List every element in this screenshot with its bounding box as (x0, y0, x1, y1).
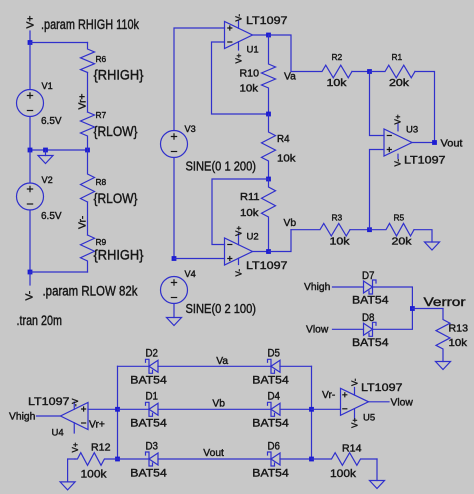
wire Va jog to R2 (269, 35, 292, 72)
U2 top supply label V+ (235, 226, 244, 236)
svg-text:D1: D1 (146, 391, 159, 403)
wire Vhigh to D7 (333, 286, 364, 288)
svg-text:Vr+: Vr+ (78, 94, 89, 110)
flag Va label top (284, 72, 296, 83)
wire U3 plus input riser (370, 150, 385, 230)
junction left column Vout (115, 457, 120, 462)
ground R13 (436, 362, 451, 370)
wire Vr+ net (87, 73, 89, 113)
wire Vb row middle (158, 408, 271, 410)
wire D7 to Verror node (373, 287, 413, 309)
label D8 (362, 312, 375, 324)
wire Va row middle (158, 365, 271, 367)
value D3 BAT54 (130, 467, 167, 479)
label R9 (96, 237, 107, 247)
svg-text:BAT54: BAT54 (252, 418, 288, 430)
svg-text:V+: V+ (26, 16, 37, 29)
label R3 (332, 213, 343, 223)
svg-text:6.5V: 6.5V (41, 116, 62, 127)
value V1 6.5V (41, 116, 62, 127)
wire U1 output (253, 34, 269, 36)
diode D2 (146, 359, 159, 373)
wire V+ rail to R6 (30, 42, 88, 44)
ground midpoint (38, 156, 53, 164)
wire column to U5 minus input (312, 408, 341, 410)
voltage source V1 (17, 90, 44, 117)
U1 bottom supply stub (238, 42, 240, 50)
resistor R6 (81, 43, 95, 73)
value V3 SINE (186, 160, 257, 174)
flag Vr+ label bottom (89, 420, 105, 431)
label V3 (185, 124, 196, 134)
svg-text:SINE(0 1 200): SINE(0 1 200) (186, 160, 257, 174)
diode D8 (364, 322, 377, 336)
flag Vr- label bottom (322, 390, 335, 401)
svg-text:Vr-: Vr- (322, 390, 335, 401)
flag V+ stub (29, 31, 31, 43)
U3 plus input mark (387, 147, 392, 152)
svg-text:10k: 10k (240, 208, 259, 219)
label D4 (268, 391, 281, 403)
U5 bottom supply label V+ (351, 418, 360, 428)
svg-text:100k: 100k (81, 469, 107, 481)
svg-text:.param RLOW 82k: .param RLOW 82k (43, 284, 138, 299)
voltage source V4 (161, 277, 188, 304)
U2 bottom supply stub (238, 258, 240, 264)
svg-text:20k: 20k (389, 78, 410, 89)
junction right column Vout (309, 457, 314, 462)
wire V4 node to U2 plus input (174, 258, 225, 260)
wire right column (311, 366, 313, 459)
svg-text:V4: V4 (185, 269, 196, 279)
U5 plus input mark (342, 392, 347, 397)
svg-text:BAT54: BAT54 (130, 418, 167, 430)
value R14 100k (330, 468, 356, 480)
value D2 BAT54 (130, 375, 167, 387)
svg-text:Vlow: Vlow (391, 398, 414, 409)
junction R7-R8 node (85, 148, 90, 153)
wire Vb jog to R3 (269, 230, 292, 252)
diode D6 (268, 452, 281, 466)
svg-text:-V: -V (71, 398, 80, 407)
U1 top supply stub (238, 21, 240, 29)
ground R12 (60, 482, 75, 490)
svg-text:V+: V+ (235, 226, 244, 236)
ground V4 (167, 318, 182, 326)
label U4 LT1097 (28, 396, 70, 408)
svg-text:R9: R9 (96, 237, 107, 247)
U4 bottom supply label V+ (71, 442, 80, 452)
svg-text:BAT54: BAT54 (352, 295, 389, 307)
U1 top supply label V- (235, 14, 244, 22)
svg-text:BAT54: BAT54 (352, 337, 389, 349)
wire V3 to V4 node (173, 158, 175, 259)
svg-text:Vb: Vb (212, 399, 225, 410)
label R7 (96, 110, 107, 120)
svg-text:R12: R12 (91, 443, 111, 454)
flag Vlow label mid (306, 325, 329, 336)
svg-text:Va: Va (284, 72, 296, 83)
value R8 RLOW (94, 191, 138, 206)
op-amp U5 (341, 388, 369, 415)
svg-text:R10: R10 (240, 69, 260, 80)
voltage source V2 (17, 183, 44, 210)
diode D1 (146, 402, 159, 416)
svg-text:R5: R5 (394, 213, 405, 223)
junction V+ rail (28, 40, 33, 45)
svg-text:V-: V- (235, 269, 244, 277)
label R13 (449, 324, 469, 335)
svg-text:Vlow: Vlow (306, 325, 329, 336)
ground stub V4 (173, 304, 175, 318)
svg-text:Vr-: Vr- (78, 216, 89, 229)
resistor R14 (312, 453, 378, 466)
svg-text:U3: U3 (406, 125, 418, 136)
svg-text:BAT54: BAT54 (252, 467, 288, 479)
wire Vout row right (280, 458, 312, 460)
svg-text:V3: V3 (185, 124, 196, 134)
diode D3 (146, 452, 159, 466)
op-amp U3 (384, 129, 412, 156)
value R11 10k (240, 208, 259, 219)
wire midpoint row (30, 149, 88, 151)
svg-text:BAT54: BAT54 (130, 375, 167, 387)
label R14 (342, 444, 362, 455)
label V1 (42, 81, 53, 91)
value R7 RLOW (94, 124, 138, 139)
wire V2 to V- rail (29, 210, 31, 272)
svg-text:V2: V2 (42, 175, 53, 185)
junction R10-R4 (266, 112, 271, 117)
resistor R3 (291, 223, 350, 236)
junction Vout node (432, 140, 437, 145)
label U3 LT1097 (404, 155, 446, 167)
junction ground tap (43, 148, 48, 153)
label V2 (42, 175, 53, 185)
U3 minus input mark (387, 135, 392, 137)
U2 top supply stub (238, 234, 240, 245)
resistor R10 (262, 35, 276, 114)
value D5 BAT54 (252, 375, 288, 387)
svg-text:Vhigh: Vhigh (9, 412, 36, 423)
flag Vhigh label mid (304, 282, 331, 293)
value D1 BAT54 (130, 418, 167, 430)
junction U2 output (266, 249, 271, 254)
flag V- label (25, 291, 36, 301)
svg-text:V+: V+ (71, 442, 80, 452)
label U2 (247, 232, 259, 243)
label R5 (394, 213, 405, 223)
svg-text:R4: R4 (277, 134, 290, 145)
diode D7 (364, 280, 377, 294)
label U5 LT1097 (361, 382, 403, 394)
wire U5 output (369, 401, 390, 403)
svg-text:SINE(0 2 100): SINE(0 2 100) (186, 302, 257, 316)
svg-text:100k: 100k (330, 468, 356, 480)
wire R5 to ground (414, 230, 432, 242)
svg-text:U2: U2 (247, 232, 259, 243)
U5 bottom supply stub (354, 409, 356, 419)
svg-text:D8: D8 (362, 312, 375, 324)
svg-text:LT1097: LT1097 (361, 382, 403, 394)
svg-text:V-: V- (235, 14, 244, 22)
flag V- stub (29, 272, 31, 285)
wire Vout row middle (158, 458, 271, 460)
svg-text:LT1097: LT1097 (246, 260, 288, 272)
svg-text:Vb: Vb (284, 218, 297, 229)
svg-text:Vout: Vout (441, 139, 463, 150)
U3 bottom supply label V- (394, 159, 403, 167)
wire Va row right (280, 365, 312, 367)
wire U2 feedback (212, 179, 269, 245)
wire Vb row left (118, 408, 150, 410)
junction Verror (410, 306, 415, 311)
value R1 20k (389, 78, 410, 89)
wire Vr- net (87, 202, 89, 235)
U4 minus input mark (81, 422, 86, 424)
wire V+ rail to V1 (29, 43, 31, 90)
svg-text:LT1097: LT1097 (246, 15, 288, 27)
flag Vr+ label (78, 94, 89, 110)
label U1 LT1097 (246, 15, 288, 27)
wire midpoint to V2 (29, 150, 31, 183)
value R6 RHIGH (94, 68, 144, 83)
value D7 BAT54 (352, 295, 389, 307)
svg-text:{RHIGH}: {RHIGH} (94, 68, 144, 83)
flag Vb label bottom (212, 399, 225, 410)
U3 top supply stub (397, 124, 399, 131)
resistor R12 (75, 453, 118, 466)
svg-text:D5: D5 (268, 348, 281, 360)
junction V1-V2 midpoint (28, 148, 33, 153)
directive .param RLOW (43, 284, 138, 299)
junction left column Vb (115, 407, 120, 412)
value R13 10k (449, 338, 469, 349)
svg-text:V-: V- (351, 378, 360, 386)
U3 bottom supply stub (397, 154, 399, 158)
U1 plus input mark (227, 25, 232, 30)
value D8 BAT54 (352, 337, 389, 349)
wire Vlow to D8 (333, 328, 364, 330)
resistor R5 (370, 223, 415, 236)
label D3 (146, 440, 159, 452)
svg-text:LT1097: LT1097 (404, 155, 446, 167)
svg-text:R3: R3 (332, 213, 343, 223)
label D6 (268, 440, 281, 452)
U5 top supply stub (354, 388, 356, 396)
wire U2 output (253, 251, 269, 253)
U3 top supply label V+ (394, 114, 403, 124)
flag Vr- label (78, 216, 89, 229)
junction U1 output (266, 33, 271, 38)
label R12 (91, 443, 111, 454)
svg-text:D7: D7 (362, 270, 375, 282)
label R8 (96, 177, 107, 187)
svg-text:LT1097: LT1097 (28, 396, 70, 408)
wire ground to R12 (68, 459, 75, 482)
flag Verror label (424, 297, 466, 309)
wire Vout row left (118, 458, 150, 460)
wire U3 output (412, 142, 435, 144)
svg-text:20k: 20k (392, 237, 413, 248)
label R1 (392, 52, 403, 62)
op-amp U4 (61, 403, 89, 430)
svg-text:Verror: Verror (424, 297, 466, 309)
voltage source V3 (161, 131, 188, 158)
svg-text:10k: 10k (449, 338, 469, 349)
svg-text:Vr+: Vr+ (89, 420, 105, 431)
svg-text:D2: D2 (146, 348, 159, 360)
label U5 (363, 412, 375, 423)
value R9 RHIGH (94, 248, 144, 263)
svg-text:BAT54: BAT54 (252, 375, 288, 387)
svg-text:V+: V+ (351, 418, 360, 428)
value R4 10k (277, 154, 296, 165)
wire D8 to Verror node (373, 309, 413, 330)
wire R14 to ground (376, 459, 378, 481)
junction V- rail (28, 270, 33, 275)
label U1 (247, 45, 259, 56)
svg-text:U4: U4 (52, 428, 64, 439)
diode D4 (268, 402, 281, 416)
wire Vhigh to U4 output (37, 415, 61, 417)
resistor R7 (81, 112, 95, 150)
svg-text:10k: 10k (277, 154, 296, 165)
svg-text:10k: 10k (330, 237, 351, 248)
U5 minus input mark (342, 408, 347, 410)
wire U3 minus input riser (370, 72, 385, 136)
label R10 (240, 69, 260, 80)
U4 top supply stub (73, 402, 75, 409)
resistor R13 (436, 309, 450, 362)
U1 minus input mark (227, 41, 232, 43)
wire V3 to U1 plus input (174, 28, 225, 131)
svg-text:BAT54: BAT54 (130, 467, 167, 479)
wire R3 to junction (350, 229, 370, 231)
wire R2 to junction (352, 71, 370, 73)
svg-text:10k: 10k (327, 78, 348, 89)
flag Vout label (441, 139, 463, 150)
label D2 (146, 348, 159, 360)
U4 top supply label V- (71, 398, 80, 407)
junction V4 top (172, 256, 177, 261)
svg-text:R7: R7 (96, 110, 107, 120)
svg-text:D4: D4 (268, 391, 281, 403)
wire Vb row right (280, 408, 312, 410)
flag Vlow label bottom (391, 398, 414, 409)
U1 bottom supply label V+ (235, 53, 244, 63)
value R10 10k (240, 83, 259, 94)
svg-text:R8: R8 (96, 177, 107, 187)
label D5 (268, 348, 281, 360)
ground R14 (370, 481, 385, 489)
svg-text:{RLOW}: {RLOW} (94, 124, 138, 139)
resistor R11 (262, 179, 276, 252)
resistor R1 (370, 65, 416, 78)
svg-text:D3: D3 (146, 440, 159, 452)
svg-text:V+: V+ (394, 114, 403, 124)
label D7 (362, 270, 375, 282)
ground R5 (425, 242, 440, 250)
svg-text:R2: R2 (332, 52, 343, 62)
svg-text:V-: V- (394, 159, 403, 167)
value V2 6.5V (41, 211, 62, 222)
junction right column Vb (309, 407, 314, 412)
svg-text:U1: U1 (247, 45, 259, 56)
value R2 10k (327, 78, 348, 89)
value R3 10k (330, 237, 351, 248)
svg-text:Vout: Vout (203, 448, 224, 459)
U2 minus input mark (227, 244, 232, 246)
wire V1 to midpoint (29, 117, 31, 151)
label R2 (332, 52, 343, 62)
wire V- rail to R9 (30, 271, 88, 273)
svg-text:R13: R13 (449, 324, 469, 335)
U2 bottom supply label V- (235, 269, 244, 277)
resistor R2 (291, 65, 352, 78)
svg-text:R6: R6 (96, 54, 107, 64)
svg-text:6.5V: 6.5V (41, 211, 62, 222)
label V4 (185, 269, 196, 279)
ground stub midpoint (45, 150, 47, 156)
label R4 (277, 134, 290, 145)
svg-text:R11: R11 (240, 192, 260, 203)
value D6 BAT54 (252, 467, 288, 479)
svg-text:.tran 20m: .tran 20m (17, 313, 63, 328)
svg-text:10k: 10k (240, 83, 259, 94)
flag Vb label top (284, 218, 297, 229)
svg-text:R1: R1 (392, 52, 403, 62)
svg-text:Vhigh: Vhigh (304, 282, 331, 293)
resistor R9 (81, 235, 95, 272)
label U3 (406, 125, 418, 136)
svg-text:D6: D6 (268, 440, 281, 452)
svg-text:.param RHIGH 110k: .param RHIGH 110k (41, 17, 139, 32)
wire U1 feedback (212, 42, 269, 114)
junction R2-R1 (367, 69, 372, 74)
wire R1 to Vout node (415, 72, 435, 143)
U4 bottom supply stub (73, 423, 75, 433)
wire U4 top input to column (88, 408, 118, 410)
flag Va label bottom (216, 356, 228, 367)
wire left column (117, 366, 119, 459)
value R12 100k (81, 469, 107, 481)
U2 plus input mark (227, 256, 232, 261)
svg-text:{RHIGH}: {RHIGH} (94, 248, 144, 263)
directive .tran (17, 313, 63, 328)
directive .param RHIGH (41, 17, 139, 32)
label U4 (52, 428, 64, 439)
svg-text:U5: U5 (363, 412, 375, 423)
flag V+ label (26, 16, 37, 29)
svg-text:R14: R14 (342, 444, 362, 455)
value V4 SINE (186, 302, 257, 316)
diode D5 (268, 359, 281, 373)
label D1 (146, 391, 159, 403)
svg-text:V-: V- (25, 291, 36, 301)
value R5 20k (392, 237, 413, 248)
label R11 (240, 192, 260, 203)
label U2 LT1097 (246, 260, 288, 272)
U5 top supply label V- (351, 378, 360, 386)
svg-text:V+: V+ (235, 53, 244, 63)
resistor R4 (262, 114, 276, 179)
flag Vhigh label bottom (9, 412, 36, 423)
svg-text:{RLOW}: {RLOW} (94, 191, 138, 206)
resistor R8 (81, 150, 95, 202)
value D4 BAT54 (252, 418, 288, 430)
flag Vout label bottom (203, 448, 224, 459)
